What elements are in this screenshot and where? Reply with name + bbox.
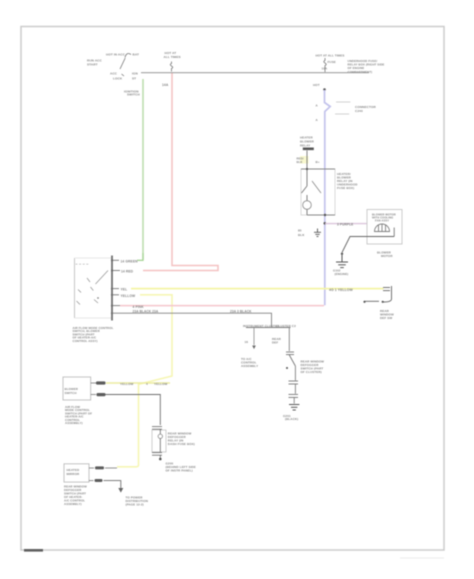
wire pink (cluster feed) <box>112 305 120 307</box>
wire yellow 2 (to blower switch) <box>112 294 119 296</box>
svg-text:10A: 10A <box>322 67 329 71</box>
rear defogger timer switch (right) <box>364 286 392 302</box>
connector marks 3 <box>289 393 299 395</box>
svg-text:4 PINK: 4 PINK <box>133 305 145 309</box>
svg-text:HOT IN ACC: HOT IN ACC <box>106 53 126 57</box>
svg-text:FUSE: FUSE <box>328 60 336 64</box>
arrow destination label <box>126 496 149 507</box>
box1 name label <box>65 405 92 425</box>
wire stub to relay <box>306 151 308 170</box>
wire green (switch output) <box>142 79 144 260</box>
ignition switch labels <box>87 53 139 81</box>
instrument cluster bus <box>246 327 291 329</box>
defogger switch label <box>301 360 325 375</box>
svg-text:START: START <box>87 63 98 67</box>
ground G1 (relay) <box>314 229 321 237</box>
box2 row1 wire yellow <box>89 466 117 469</box>
node blue/purple junction <box>324 222 327 225</box>
blower motor M1 <box>367 210 402 245</box>
wire purple (relay to blower) <box>325 223 367 225</box>
svg-text:MIRROR: MIRROR <box>67 472 80 476</box>
svg-text:YELLOW: YELLOW <box>154 382 168 386</box>
cluster pin 16 drop <box>253 328 255 346</box>
ground G4 label <box>166 462 196 473</box>
svg-text:4: 4 <box>146 382 148 386</box>
A/C heater control assembly box <box>75 258 113 318</box>
box2 row2 wire to arrow <box>89 479 123 493</box>
svg-text:3 PURPLE: 3 PURPLE <box>337 223 353 227</box>
svg-text:C240: C240 <box>355 109 363 113</box>
box1 row1 wire yellow <box>91 381 170 386</box>
control assembly connector bus <box>111 256 113 321</box>
wire yellow (to defogger switch) <box>112 288 119 290</box>
svg-text:(BLACK): (BLACK) <box>285 417 298 421</box>
svg-text:DEF SW: DEF SW <box>380 316 392 320</box>
svg-text:BLK: BLK <box>298 233 305 237</box>
svg-text:HOT: HOT <box>313 83 320 87</box>
svg-text:SWITCH: SWITCH <box>127 93 140 97</box>
wire red (ignition feed) <box>143 73 218 271</box>
heater relay coil feed label <box>300 136 315 148</box>
svg-text:LOCK: LOCK <box>113 77 123 81</box>
fuse box label <box>348 59 385 74</box>
relay ground branch label <box>298 229 305 238</box>
wire bus top (hot at all times) <box>141 72 369 74</box>
ignition switch name label <box>124 90 140 97</box>
svg-text:BLK: BLK <box>297 160 303 164</box>
svg-text:YELLOW: YELLOW <box>121 294 136 298</box>
svg-text:23A BLACK 23A: 23A BLACK 23A <box>133 310 159 314</box>
node B+ <box>323 88 326 91</box>
svg-text:SWITCH: SWITCH <box>65 391 77 395</box>
svg-text:COMPARTMENT): COMPARTMENT) <box>348 70 373 74</box>
svg-text:HOT AT ALL TIMES: HOT AT ALL TIMES <box>316 53 345 57</box>
connector marks 2 <box>289 380 299 382</box>
ground G2 label <box>333 269 348 277</box>
svg-text:FUSE BOX): FUSE BOX) <box>337 186 354 190</box>
ground G2 (blower) <box>336 255 348 268</box>
blower motor name label <box>377 251 393 259</box>
connector marks <box>286 351 294 353</box>
mode switch box 2 <box>64 464 89 482</box>
svg-text:14 GREEN: 14 GREEN <box>121 259 139 263</box>
svg-text:14A: 14A <box>162 83 169 87</box>
svg-text:ST: ST <box>132 77 136 81</box>
control assembly switch contacts <box>77 271 109 305</box>
svg-text:14 RED: 14 RED <box>121 270 134 274</box>
node label box <box>300 156 309 164</box>
fuse F2 (10A) <box>316 53 345 72</box>
fuse F1 (14A) <box>162 51 181 87</box>
svg-text:4G 1 YELLOW: 4G 1 YELLOW <box>329 288 354 292</box>
svg-text:23A 3 BLACK: 23A 3 BLACK <box>230 310 252 314</box>
heater relay label <box>337 172 358 190</box>
svg-text:OF INSTR PANEL): OF INSTR PANEL) <box>166 469 193 473</box>
wire motor ground <box>342 237 394 253</box>
rear defogger switch leg <box>288 328 290 352</box>
svg-text:INSTRUMENT CLUSTER: INSTRUMENT CLUSTER <box>243 324 280 328</box>
svg-text:DASH FUSE BOX): DASH FUSE BOX) <box>168 442 195 446</box>
ground G3 (cluster) <box>289 405 299 411</box>
blower motor symbol <box>375 224 390 232</box>
svg-text:YEL: YEL <box>121 288 128 292</box>
svg-text:CONTROL ASSY): CONTROL ASSY) <box>73 339 98 343</box>
box2 name label <box>64 485 87 507</box>
page corner mark <box>24 549 43 552</box>
svg-text:16: 16 <box>245 340 249 344</box>
svg-text:MOTOR: MOTOR <box>381 254 393 258</box>
svg-text:(PAGE 12-2): (PAGE 12-2) <box>126 503 144 507</box>
cluster drop label <box>241 357 258 368</box>
ignition switch S1 <box>120 54 131 77</box>
timer switch label <box>380 309 394 320</box>
svg-text:(ENGINE): (ENGINE) <box>335 272 349 276</box>
svg-text:ASSEMBLY: ASSEMBLY <box>241 364 258 368</box>
svg-text:85: 85 <box>298 229 302 233</box>
svg-text:YELLOW: YELLOW <box>120 382 134 386</box>
box1 row2 wire black <box>91 393 161 425</box>
svg-text:FAN ASSY: FAN ASSY <box>375 219 389 223</box>
wire blue (fuse output) <box>325 90 331 305</box>
svg-text:CLUSTER C2: CLUSTER C2 <box>276 324 296 328</box>
heater relay U1 <box>301 169 335 215</box>
connector C1 <box>316 102 377 122</box>
svg-text:B+: B+ <box>316 160 320 164</box>
green wire pin stub <box>112 259 119 261</box>
svg-text:DEF: DEF <box>272 340 278 344</box>
svg-text:ASSEMBLY): ASSEMBLY) <box>65 421 83 425</box>
defogger relay label <box>168 432 195 447</box>
rear defogger relay K2 <box>152 427 166 458</box>
svg-text:BAT: BAT <box>133 53 139 57</box>
control assembly internal dashes <box>76 263 90 265</box>
ground G3 label <box>283 414 298 421</box>
defogger switch contact <box>289 355 295 366</box>
wire black (cluster) <box>112 313 272 327</box>
svg-text:RELAY: RELAY <box>300 144 310 148</box>
svg-text:OF CLUSTER): OF CLUSTER) <box>301 370 322 374</box>
heater relay connector bar <box>303 148 314 151</box>
svg-text:IGN: IGN <box>132 72 138 76</box>
svg-text:ASSEMBLY): ASSEMBLY) <box>64 502 82 506</box>
control assembly name label <box>73 326 114 343</box>
svg-text:ALL TIMES: ALL TIMES <box>164 55 181 59</box>
red wire pin stub <box>112 270 120 272</box>
mode switch box 1 <box>63 377 91 400</box>
svg-text:ACC: ACC <box>110 72 118 76</box>
green wire corner <box>137 253 143 260</box>
